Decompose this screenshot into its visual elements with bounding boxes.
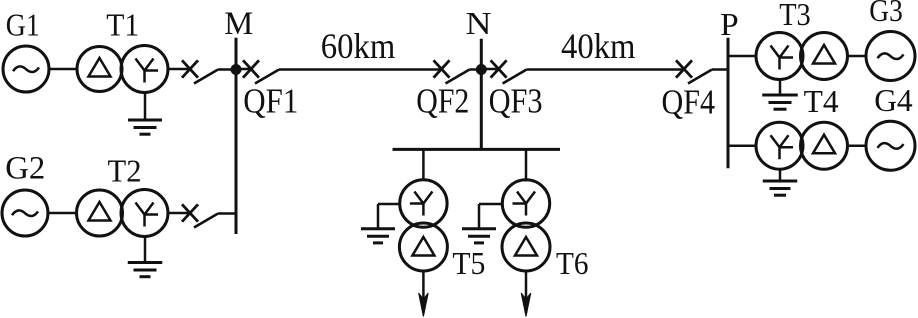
generator G3 bbox=[866, 32, 915, 81]
transformer T5 bbox=[399, 180, 447, 271]
breaker QF3 X bbox=[491, 60, 507, 77]
svg-text:40km: 40km bbox=[561, 26, 636, 66]
transformer T2 bbox=[77, 190, 169, 237]
bus N vertical bbox=[480, 39, 483, 150]
label T2 bbox=[108, 152, 142, 188]
label G1 bbox=[6, 6, 40, 42]
wire bus P to T3 bbox=[728, 55, 755, 58]
transformer T6 bbox=[502, 180, 550, 271]
svg-text:QF3: QF3 bbox=[489, 82, 543, 121]
svg-text:P: P bbox=[720, 6, 739, 42]
node N junction dot bbox=[476, 64, 487, 75]
ground T6 bbox=[462, 204, 503, 243]
generator G2 bbox=[2, 190, 48, 236]
transformer T4 bbox=[756, 122, 848, 169]
wire bus P to T4 bbox=[728, 144, 755, 147]
LV busbar under N bbox=[393, 148, 561, 151]
label T1 bbox=[106, 7, 139, 43]
wire drop to T5 bbox=[422, 149, 425, 181]
wire T4 to G4 bbox=[848, 144, 867, 147]
label 40km bbox=[561, 26, 636, 66]
label P bbox=[720, 6, 739, 42]
wire 60km line M to N bbox=[279, 68, 442, 71]
label QF3 bbox=[489, 82, 543, 121]
label 60km bbox=[321, 26, 396, 66]
svg-text:T3: T3 bbox=[779, 0, 811, 32]
breaker X at M left bbox=[182, 60, 198, 77]
ground T2 bbox=[128, 237, 163, 277]
switch blade G2 line bbox=[194, 214, 218, 228]
breaker QF1 X bbox=[243, 60, 259, 77]
wire 40km line N to P bbox=[527, 68, 684, 71]
svg-text:T6: T6 bbox=[556, 246, 589, 281]
svg-text:G3: G3 bbox=[869, 0, 903, 28]
label G2 bbox=[5, 150, 45, 186]
load arrow T6 bbox=[521, 271, 531, 317]
transformer T3 bbox=[756, 33, 848, 80]
node M junction dot bbox=[231, 64, 242, 75]
wire blade QF2 to bus N bbox=[470, 68, 482, 71]
label T6 bbox=[556, 246, 589, 281]
wire blade to bus M bbox=[218, 68, 236, 71]
label G4 bbox=[874, 83, 913, 118]
svg-text:G2: G2 bbox=[5, 150, 45, 186]
svg-text:T1: T1 bbox=[106, 7, 139, 43]
load arrow T5 bbox=[419, 271, 429, 317]
svg-text:60km: 60km bbox=[321, 26, 396, 66]
wire G1 to T1 bbox=[49, 68, 78, 71]
wire T1 to breaker bbox=[168, 68, 190, 71]
transformer T1 bbox=[77, 46, 168, 93]
wire bus N to QF3 bbox=[481, 68, 498, 71]
svg-text:QF4: QF4 bbox=[662, 82, 716, 121]
breaker X at G2 line bbox=[182, 204, 198, 221]
wire G2 to T2 bbox=[48, 212, 77, 215]
switch blade at M left bbox=[194, 70, 218, 84]
bus P bbox=[727, 38, 730, 169]
ground T4 bbox=[763, 169, 798, 195]
wire T2 to breaker bbox=[168, 212, 190, 215]
label N bbox=[466, 5, 492, 41]
label QF1 bbox=[243, 82, 298, 121]
wire T3 to G3 bbox=[848, 55, 867, 58]
svg-text:M: M bbox=[224, 6, 253, 42]
svg-text:G1: G1 bbox=[6, 6, 40, 42]
svg-text:T5: T5 bbox=[452, 246, 485, 281]
switch blade QF4 bbox=[688, 70, 712, 84]
ground T5 bbox=[361, 204, 400, 243]
ground T1 bbox=[128, 93, 162, 135]
svg-text:T2: T2 bbox=[108, 152, 142, 188]
switch blade QF1 bbox=[255, 70, 279, 84]
generator G1 bbox=[3, 46, 49, 92]
label T3 bbox=[779, 0, 811, 32]
wire blade QF4 to bus P bbox=[712, 68, 728, 71]
label T5 bbox=[452, 246, 485, 281]
wire drop to T6 bbox=[525, 149, 528, 181]
wire blade to bus M lower bbox=[218, 212, 236, 215]
label QF2 bbox=[416, 82, 469, 121]
ground T3 bbox=[762, 80, 798, 110]
label G3 bbox=[869, 0, 903, 28]
svg-text:QF2: QF2 bbox=[416, 82, 469, 121]
svg-text:T4: T4 bbox=[804, 84, 839, 119]
svg-text:N: N bbox=[466, 5, 492, 41]
svg-text:G4: G4 bbox=[874, 83, 913, 118]
label QF4 bbox=[662, 82, 716, 121]
bus M bbox=[235, 38, 238, 234]
svg-text:QF1: QF1 bbox=[243, 82, 298, 121]
label M bbox=[224, 6, 253, 42]
generator G4 bbox=[866, 121, 915, 170]
switch blade QF3 bbox=[503, 70, 527, 84]
breaker QF4 X bbox=[676, 60, 692, 77]
wire bus M to QF1 bbox=[236, 68, 251, 71]
breaker QF2 X bbox=[434, 60, 450, 77]
label T4 bbox=[804, 84, 839, 119]
switch blade QF2 bbox=[446, 70, 470, 84]
